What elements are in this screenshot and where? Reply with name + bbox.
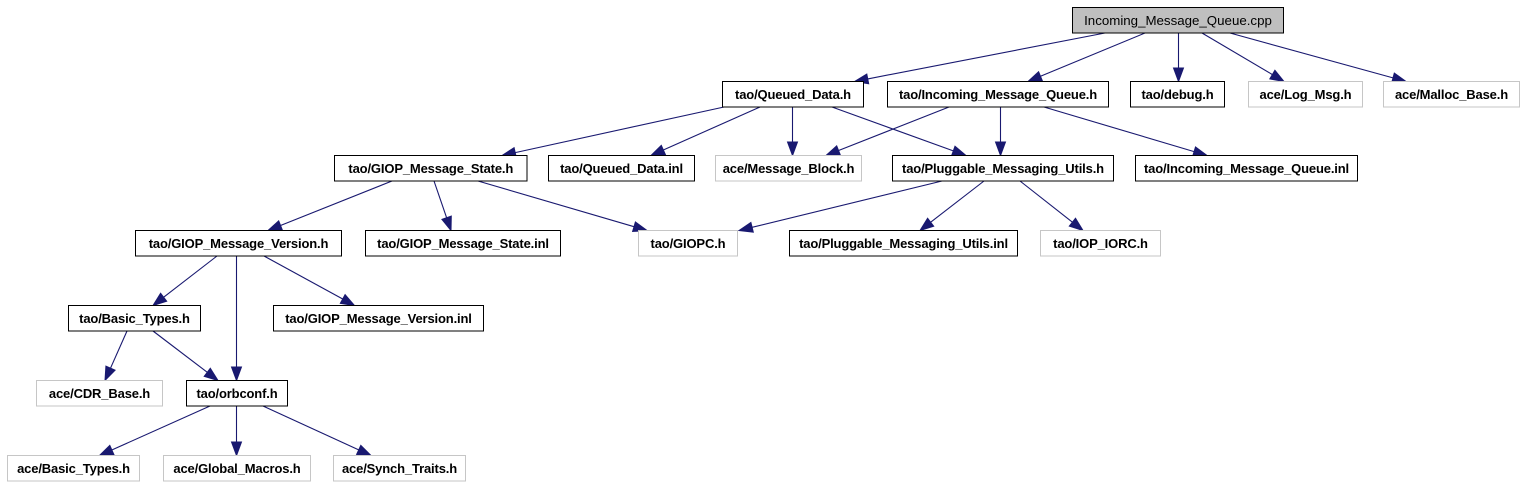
svg-text:ace/Malloc_Base.h: ace/Malloc_Base.h bbox=[1395, 87, 1508, 102]
edge tao/GIOP_Message_Version.h to tao/orbconf.h bbox=[232, 256, 242, 381]
svg-text:tao/Pluggable_Messaging_Utils.: tao/Pluggable_Messaging_Utils.inl bbox=[799, 236, 1008, 251]
node ace/Synch_Traits.h bbox=[334, 456, 466, 482]
node tao/Pluggable_Messaging_Utils.inl bbox=[790, 231, 1018, 257]
svg-text:tao/GIOPC.h: tao/GIOPC.h bbox=[651, 236, 726, 251]
svg-text:tao/orbconf.h: tao/orbconf.h bbox=[196, 386, 277, 401]
svg-text:tao/GIOP_Message_State.inl: tao/GIOP_Message_State.inl bbox=[377, 236, 549, 251]
svg-text:tao/Incoming_Message_Queue.inl: tao/Incoming_Message_Queue.inl bbox=[1144, 161, 1349, 176]
node tao/Basic_Types.h bbox=[69, 306, 201, 332]
edge Incoming_Message_Queue.cpp to tao/Incoming_Message_Queue.h bbox=[1028, 33, 1145, 82]
node tao/Queued_Data.h bbox=[723, 82, 864, 108]
node Incoming_Message_Queue.cpp bbox=[1073, 8, 1284, 34]
edge Incoming_Message_Queue.cpp to tao/Queued_Data.h bbox=[855, 33, 1106, 84]
edge tao/orbconf.h to ace/Basic_Types.h bbox=[100, 406, 211, 456]
edge tao/GIOP_Message_Version.h to tao/Basic_Types.h bbox=[153, 256, 217, 306]
node tao/orbconf.h bbox=[187, 381, 288, 407]
edge tao/Queued_Data.h to ace/Message_Block.h bbox=[788, 107, 798, 156]
svg-text:ace/CDR_Base.h: ace/CDR_Base.h bbox=[49, 386, 150, 401]
edge Incoming_Message_Queue.cpp to ace/Malloc_Base.h bbox=[1230, 33, 1406, 83]
node tao/debug.h bbox=[1131, 82, 1225, 108]
node tao/Incoming_Message_Queue.inl bbox=[1136, 156, 1358, 182]
svg-text:Incoming_Message_Queue.cpp: Incoming_Message_Queue.cpp bbox=[1084, 13, 1272, 28]
svg-text:tao/GIOP_Message_Version.inl: tao/GIOP_Message_Version.inl bbox=[285, 311, 472, 326]
edge tao/orbconf.h to ace/Synch_Traits.h bbox=[263, 406, 371, 456]
node ace/Malloc_Base.h bbox=[1384, 82, 1520, 108]
svg-text:ace/Basic_Types.h: ace/Basic_Types.h bbox=[17, 461, 130, 476]
edge tao/Pluggable_Messaging_Utils.h to tao/GIOPC.h bbox=[739, 181, 942, 232]
edge tao/Basic_Types.h to ace/CDR_Base.h bbox=[105, 331, 127, 381]
edge tao/GIOP_Message_Version.h to tao/GIOP_Message_Version.inl bbox=[264, 256, 355, 306]
edge tao/orbconf.h to ace/Global_Macros.h bbox=[232, 406, 242, 456]
node tao/GIOP_Message_Version.inl bbox=[274, 306, 484, 332]
node ace/Global_Macros.h bbox=[164, 456, 311, 482]
node tao/GIOP_Message_State.h bbox=[335, 156, 528, 182]
edge tao/Incoming_Message_Queue.h to tao/Incoming_Message_Queue.inl bbox=[1044, 107, 1207, 156]
edge tao/Pluggable_Messaging_Utils.h to tao/Pluggable_Messaging_Utils.inl bbox=[920, 181, 984, 231]
edge tao/Basic_Types.h to tao/orbconf.h bbox=[153, 331, 218, 381]
edge tao/Queued_Data.h to tao/Pluggable_Messaging_Utils.h bbox=[832, 107, 966, 156]
svg-text:tao/Incoming_Message_Queue.h: tao/Incoming_Message_Queue.h bbox=[899, 87, 1097, 102]
svg-text:ace/Synch_Traits.h: ace/Synch_Traits.h bbox=[342, 461, 457, 476]
edge Incoming_Message_Queue.cpp to tao/debug.h bbox=[1174, 33, 1184, 82]
svg-text:ace/Message_Block.h: ace/Message_Block.h bbox=[723, 161, 855, 176]
svg-text:tao/Basic_Types.h: tao/Basic_Types.h bbox=[79, 311, 190, 326]
node ace/Log_Msg.h bbox=[1249, 82, 1363, 108]
node ace/Message_Block.h bbox=[716, 156, 862, 182]
svg-text:tao/GIOP_Message_Version.h: tao/GIOP_Message_Version.h bbox=[149, 236, 329, 251]
edge Incoming_Message_Queue.cpp to ace/Log_Msg.h bbox=[1202, 33, 1284, 82]
edge tao/GIOP_Message_State.h to tao/GIOP_Message_Version.h bbox=[268, 181, 392, 231]
edge tao/Incoming_Message_Queue.h to ace/Message_Block.h bbox=[826, 107, 949, 156]
edge tao/Incoming_Message_Queue.h to tao/Pluggable_Messaging_Utils.h bbox=[996, 107, 1006, 156]
svg-text:tao/IOP_IORC.h: tao/IOP_IORC.h bbox=[1053, 236, 1148, 251]
node tao/Pluggable_Messaging_Utils.h bbox=[893, 156, 1114, 182]
node tao/Incoming_Message_Queue.h bbox=[888, 82, 1109, 108]
edge tao/GIOP_Message_State.h to tao/GIOP_Message_State.inl bbox=[434, 181, 451, 231]
edge tao/Queued_Data.h to tao/Queued_Data.inl bbox=[651, 107, 760, 156]
svg-text:tao/GIOP_Message_State.h: tao/GIOP_Message_State.h bbox=[348, 161, 513, 176]
svg-text:tao/Pluggable_Messaging_Utils.: tao/Pluggable_Messaging_Utils.h bbox=[902, 161, 1104, 176]
edge tao/GIOP_Message_State.h to tao/GIOPC.h bbox=[478, 181, 647, 232]
edge tao/Pluggable_Messaging_Utils.h to tao/IOP_IORC.h bbox=[1020, 181, 1083, 231]
edge tao/Queued_Data.h to tao/GIOP_Message_State.h bbox=[502, 107, 724, 158]
svg-text:tao/Queued_Data.inl: tao/Queued_Data.inl bbox=[560, 161, 683, 176]
node ace/Basic_Types.h bbox=[8, 456, 140, 482]
svg-text:tao/Queued_Data.h: tao/Queued_Data.h bbox=[735, 87, 851, 102]
node tao/Queued_Data.inl bbox=[549, 156, 695, 182]
svg-text:tao/debug.h: tao/debug.h bbox=[1141, 87, 1213, 102]
node ace/CDR_Base.h bbox=[37, 381, 163, 407]
svg-text:ace/Log_Msg.h: ace/Log_Msg.h bbox=[1260, 87, 1352, 102]
node tao/GIOP_Message_Version.h bbox=[136, 231, 342, 257]
node tao/GIOPC.h bbox=[639, 231, 738, 257]
node tao/IOP_IORC.h bbox=[1041, 231, 1161, 257]
node tao/GIOP_Message_State.inl bbox=[366, 231, 561, 257]
svg-text:ace/Global_Macros.h: ace/Global_Macros.h bbox=[173, 461, 300, 476]
